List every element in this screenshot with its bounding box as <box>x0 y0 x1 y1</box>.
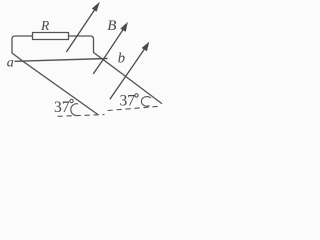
field arrow B middle <box>94 28 125 73</box>
angle arc right <box>141 97 150 107</box>
angle arc left <box>71 104 78 116</box>
incline right edge <box>102 59 162 104</box>
degree symbol right <box>135 94 138 97</box>
svg-text:B: B <box>107 18 116 34</box>
dashed base line left <box>58 115 104 117</box>
svg-text:b: b <box>118 51 125 67</box>
svg-text:37: 37 <box>54 99 70 116</box>
resistor R1 <box>33 33 69 40</box>
dashed base line right <box>108 106 160 110</box>
degree symbol left <box>70 99 73 102</box>
wire left side of loop <box>12 36 33 61</box>
wire right side of loop <box>69 36 102 59</box>
incline left edge <box>23 61 98 114</box>
svg-text:37: 37 <box>120 93 136 110</box>
svg-text:a: a <box>7 56 14 71</box>
svg-text:R: R <box>40 18 50 33</box>
field arrow B right <box>110 48 145 99</box>
rod ab <box>15 59 107 62</box>
field arrow B left <box>67 9 96 52</box>
